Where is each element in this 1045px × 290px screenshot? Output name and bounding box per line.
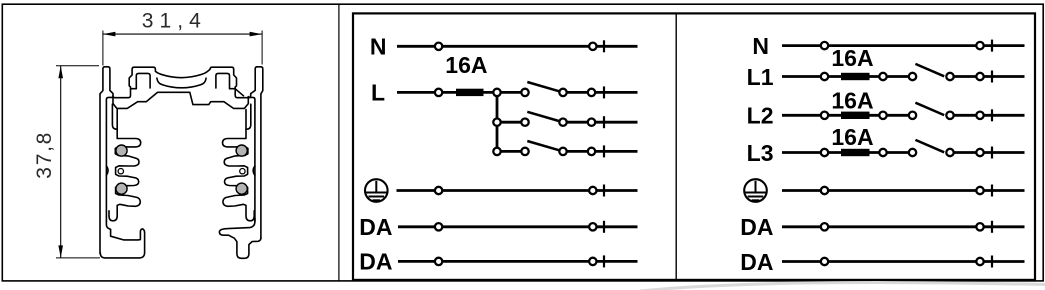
- ground symbol middle: [365, 179, 388, 202]
- coupler circle DA1 right: [589, 223, 596, 230]
- terminal circle L2 a: [821, 112, 828, 119]
- branch wire row 3 right: [563, 150, 638, 153]
- profile inner wall right: [249, 97, 255, 221]
- coupler tick row 2: [603, 116, 605, 128]
- terminal circle DA right 2: [821, 258, 828, 265]
- svg-text:16A: 16A: [831, 124, 873, 150]
- switch S6 blade: [915, 140, 944, 152]
- center arc lower line: [157, 78, 206, 88]
- profile inner wall left: [106, 97, 112, 221]
- svg-text:DA: DA: [359, 214, 392, 240]
- conductor circle left bottom: [116, 183, 127, 194]
- dimension height extension lines: [56, 65, 99, 67]
- switch S3 left contact: [521, 148, 528, 155]
- branch wire row 2: [497, 121, 525, 124]
- fuse L1 16A: [841, 73, 870, 80]
- wire L1 left: [782, 75, 841, 78]
- schematic outer box: [353, 13, 1035, 280]
- junction node circle row 3: [493, 148, 500, 155]
- terminal circle N left: [435, 43, 442, 50]
- switch S3 blade: [527, 141, 560, 151]
- wire N row: [397, 45, 638, 48]
- profile outer silhouette: [100, 67, 263, 254]
- svg-text:L2: L2: [747, 103, 774, 129]
- junction node circle row 1: [493, 89, 500, 96]
- dimension width line 31,4: [103, 33, 262, 35]
- left wall hook: [112, 104, 117, 129]
- wire DA row 1: [398, 225, 638, 228]
- svg-text:L1: L1: [747, 64, 774, 90]
- wire DA row 2: [398, 260, 638, 263]
- fuse F1 16A: [456, 89, 484, 96]
- switch S2 blade: [527, 112, 560, 122]
- wire DA right row 2: [782, 260, 1025, 263]
- switch S3 right contact: [559, 148, 566, 155]
- coupler tick L3: [991, 147, 993, 159]
- coupler tick L row 1: [603, 86, 605, 98]
- dimension height arrow top: [58, 66, 63, 79]
- svg-text:DA: DA: [359, 249, 392, 275]
- conductor circle right middle small: [240, 169, 245, 174]
- ground symbol right: [744, 179, 767, 202]
- switch S2 right contact: [559, 119, 566, 126]
- terminal circle ground right diagram: [821, 187, 828, 194]
- bottom-right foot with T stem: [219, 218, 261, 258]
- right insulator with fingers: [223, 129, 255, 221]
- terminal circle L1 b: [879, 73, 886, 80]
- terminal circle DA2 left: [435, 258, 442, 265]
- coupler tick ground right diagram: [991, 185, 993, 197]
- terminal circle DA1 left: [435, 223, 442, 230]
- bottom-left foot: [100, 222, 144, 258]
- right wall hook: [246, 104, 251, 129]
- right wall bump at middle conductor: [253, 166, 255, 175]
- dimension height arrow bottom: [58, 245, 63, 258]
- junction riser wire: [496, 92, 499, 151]
- dimension width extension lines: [102, 31, 104, 66]
- schematic box divider: [675, 13, 677, 280]
- wire L switch to end: [563, 91, 638, 94]
- conductor circle left top: [116, 145, 127, 156]
- wire L2 right: [950, 114, 1025, 117]
- switch S2 left contact: [521, 119, 528, 126]
- wire L3 fuse to switch: [870, 151, 913, 154]
- wire L1 right: [950, 75, 1025, 78]
- coupler circle L3: [976, 149, 983, 156]
- svg-text:16A: 16A: [445, 52, 487, 78]
- wire L fuse to switch contact: [484, 91, 526, 94]
- svg-text:16A: 16A: [831, 87, 873, 113]
- conductor circle right top: [236, 145, 247, 156]
- profile inner channel ceiling contour: [113, 92, 248, 108]
- coupler tick L2: [991, 109, 993, 121]
- coupler circle N right: [589, 43, 596, 50]
- coupler tick N: [603, 40, 605, 52]
- svg-text:N: N: [752, 33, 769, 59]
- right tab cavity: [216, 73, 244, 95]
- svg-text:16A: 16A: [831, 45, 873, 71]
- terminal circle L3 b: [879, 149, 886, 156]
- wire L2 left: [782, 114, 841, 117]
- svg-text:DA: DA: [740, 249, 773, 275]
- wire L row left: [397, 91, 456, 94]
- switch S1 blade: [527, 82, 560, 92]
- cell divider between profile cell and schematic cell: [338, 4, 340, 281]
- left wall bump at middle conductor: [106, 166, 108, 175]
- coupler circle DA right 1: [976, 223, 983, 230]
- switch S1 right contact: [559, 89, 566, 96]
- page curl watermark arc: [640, 283, 1045, 290]
- dimension height line 37,8: [60, 66, 62, 258]
- coupler tick N right: [991, 40, 993, 52]
- coupler circle row 3: [588, 148, 595, 155]
- wire L2 fuse to switch: [870, 114, 913, 117]
- terminal circle L3 a: [821, 149, 828, 156]
- switch S1 left contact: [521, 89, 528, 96]
- dimension width arrow right: [250, 32, 263, 37]
- conductor circle left middle small: [118, 169, 123, 174]
- terminal circle L1 a: [821, 73, 828, 80]
- coupler tick L1: [991, 71, 993, 83]
- wire DA right row 1: [782, 225, 1025, 228]
- svg-text:L3: L3: [747, 140, 774, 166]
- wire ground row: [397, 189, 638, 192]
- conductor circle right bottom: [236, 183, 247, 194]
- switch S4 right contact: [946, 73, 953, 80]
- coupler circle ground right diagram: [976, 187, 983, 194]
- terminal circle ground left: [435, 187, 442, 194]
- switch S4 left contact: [909, 73, 916, 80]
- switch S5 right contact: [946, 112, 953, 119]
- wire L3 left: [782, 151, 841, 154]
- left tab cavity: [131, 73, 150, 88]
- svg-text:N: N: [370, 34, 387, 60]
- terminal circle L2 b: [879, 112, 886, 119]
- junction node circle row 2: [493, 119, 500, 126]
- coupler circle DA2 right: [589, 258, 596, 265]
- coupler circle ground right: [589, 187, 596, 194]
- coupler tick DA2: [603, 255, 605, 267]
- terminal circle N left: [821, 42, 828, 49]
- coupler tick DA1: [603, 221, 605, 233]
- coupler tick DA right 1: [991, 221, 993, 233]
- coupler tick DA right 2: [991, 256, 993, 268]
- terminal circle DA right 1: [821, 223, 828, 230]
- switch S5 blade: [915, 103, 944, 115]
- coupler tick row 3: [603, 145, 605, 157]
- switch S6 right contact: [946, 149, 953, 156]
- wire L3 right: [950, 151, 1025, 154]
- coupler circle L2: [976, 112, 983, 119]
- coupler circle N right: [976, 42, 983, 49]
- branch wire row 2 right: [563, 121, 638, 124]
- svg-text:DA: DA: [740, 214, 773, 240]
- branch wire row 3: [497, 150, 525, 153]
- dimension width arrow left: [103, 32, 116, 37]
- wire N row right: [782, 44, 1025, 47]
- switch S5 left contact: [909, 112, 916, 119]
- coupler circle DA right 2: [976, 258, 983, 265]
- fuse L2 16A: [841, 112, 870, 119]
- left insulator with fingers: [109, 129, 141, 221]
- switch S4 blade: [915, 64, 944, 76]
- coupler circle L1: [976, 73, 983, 80]
- coupler circle row 2: [588, 119, 595, 126]
- svg-text:37,8: 37,8: [33, 133, 56, 179]
- wire ground row right: [782, 189, 1025, 192]
- coupler tick ground: [603, 185, 605, 197]
- coupler circle L row 1: [588, 89, 595, 96]
- fuse L3 16A: [841, 149, 870, 156]
- terminal circle L left: [435, 89, 442, 96]
- svg-text:L: L: [371, 80, 385, 106]
- switch S6 left contact: [909, 149, 916, 156]
- wire L1 fuse to switch: [870, 75, 913, 78]
